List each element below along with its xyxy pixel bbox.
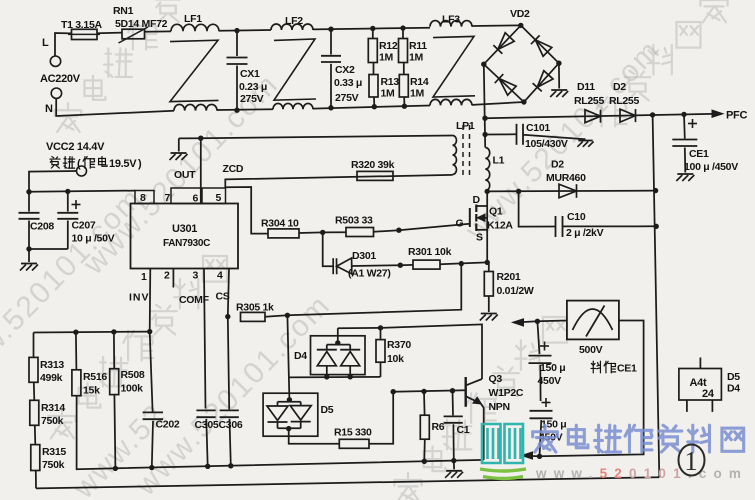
svg-text:N: N: [45, 103, 53, 115]
wire INV node: [34, 331, 150, 334]
diode D301 (A1 W27): [323, 232, 333, 266]
wire pin6 GND: [200, 138, 202, 203]
svg-text:D11: D11: [577, 81, 595, 93]
svg-text:R13: R13: [381, 76, 400, 88]
svg-text:1: 1: [141, 271, 147, 283]
svg-text:0.23 μ: 0.23 μ: [239, 81, 267, 93]
svg-text:MUR460: MUR460: [546, 172, 586, 184]
svg-text:PFC: PFC: [726, 110, 747, 122]
svg-text:INV: INV: [129, 292, 150, 304]
svg-text:C10: C10: [567, 211, 586, 223]
wire: [97, 32, 122, 35]
wire: [217, 108, 273, 111]
svg-text:Q3: Q3: [489, 373, 503, 385]
wire: [313, 106, 430, 109]
svg-text:R370: R370: [387, 339, 411, 351]
capacitor 150u 450V lower: [542, 398, 551, 407]
wire bottom rail: [36, 477, 659, 488]
wire R15 to Q3 base: [369, 390, 466, 444]
wire D4 node to Q3 collector: [381, 324, 483, 379]
svg-text:1M: 1M: [409, 52, 424, 64]
diode D5 pair: [263, 393, 318, 436]
wire N to bridge: [472, 102, 524, 105]
svg-text:C202: C202: [156, 419, 180, 431]
bridge rectifier VD2: [484, 25, 559, 102]
wire R14 to N line: [403, 97, 405, 106]
ground C208: [28, 249, 30, 262]
wire ground bus: [77, 396, 484, 470]
resistor R11 1M: [402, 28, 404, 38]
resistor R304 10: [268, 229, 299, 238]
svg-text:RL255: RL255: [609, 95, 639, 107]
wire gate: [399, 224, 470, 231]
svg-text:D2: D2: [613, 81, 626, 93]
wire: [299, 231, 323, 234]
wire R13 to N line: [373, 97, 375, 107]
svg-text:RL255: RL255: [574, 95, 604, 107]
svg-text:C101: C101: [526, 122, 550, 134]
svg-text:www.520101.com: www.520101.com: [535, 466, 748, 481]
svg-text:R508: R508: [121, 369, 145, 381]
svg-text:105/430V: 105/430V: [525, 138, 568, 150]
capacitor 150u 450V upper: [537, 321, 539, 354]
svg-text:19.5V: 19.5V: [109, 158, 137, 170]
resistor R14 1M: [403, 63, 405, 75]
svg-text:750k: 750k: [41, 415, 64, 427]
svg-text:U301: U301: [172, 223, 197, 235]
svg-text:C207: C207: [72, 220, 96, 232]
svg-text:OUT: OUT: [174, 169, 196, 181]
ground C101: [577, 141, 593, 147]
wire PFC line: [485, 114, 712, 118]
svg-text:R15 330: R15 330: [334, 427, 372, 439]
svg-text:D5: D5: [727, 371, 740, 383]
fuse T1 3.15A: [72, 29, 98, 39]
resistor R370 10k: [376, 340, 385, 363]
wire: [313, 28, 368, 31]
wire CS node: [265, 315, 287, 317]
node arrow bottom: [528, 455, 540, 457]
svg-text:1: 1: [684, 446, 698, 476]
resistor R15 330: [339, 439, 369, 448]
wire ZCD line: [225, 175, 452, 188]
svg-text:COMF: COMF: [179, 294, 210, 306]
wire CS to D4 D5: [287, 315, 289, 400]
wire DC rail vertical: [484, 64, 485, 147]
label shice daiji 19.5V: [50, 157, 60, 169]
svg-text:G: G: [456, 218, 464, 230]
svg-text:8: 8: [140, 192, 146, 204]
diode D2 RL255: [620, 109, 636, 122]
node arrow to PFC: [524, 320, 537, 323]
resistor R201 0.01/2W: [488, 262, 490, 271]
junction: [650, 112, 655, 117]
resistor R301 10k: [413, 260, 440, 269]
resistor R6: [423, 391, 426, 415]
svg-text:2 μ /2kV: 2 μ /2kV: [566, 227, 604, 239]
svg-text:275V: 275V: [240, 93, 264, 105]
resistor R320 39k: [357, 171, 393, 180]
svg-text:FAN7930C: FAN7930C: [163, 238, 210, 249]
svg-text:R503 33: R503 33: [335, 215, 373, 227]
svg-text:1M: 1M: [381, 88, 396, 100]
resistor R13 1M: [373, 63, 375, 75]
svg-text:150 μ: 150 μ: [540, 362, 565, 374]
resistor R508 100k: [113, 332, 115, 369]
capacitor C207 10u/50V: [72, 200, 81, 209]
wire LP1 top to GND line: [201, 136, 453, 139]
wire meter right loop: [540, 321, 644, 457]
svg-text:275V: 275V: [335, 92, 359, 104]
capacitor CE1 100u/450V: [683, 114, 686, 138]
wire right vertical rail: [653, 115, 660, 477]
node PFC output: [712, 110, 723, 117]
resistor R503 33: [346, 228, 374, 237]
svg-text:VD2: VD2: [510, 8, 530, 20]
junction: [537, 454, 542, 459]
svg-text:L1: L1: [493, 155, 505, 167]
svg-text:L: L: [42, 37, 49, 49]
svg-text:D2: D2: [551, 159, 564, 171]
capacitor C306: [228, 317, 229, 410]
wire VCC rail: [29, 191, 136, 192]
svg-text:5D14 MF72: 5D14 MF72: [115, 18, 168, 30]
svg-text:CE1: CE1: [617, 363, 637, 375]
wire bridge minus: [558, 63, 560, 88]
svg-text:CS: CS: [216, 291, 230, 303]
svg-text:CE1: CE1: [689, 148, 709, 160]
capacitor C305: [196, 409, 215, 411]
svg-text:R201: R201: [497, 271, 521, 283]
inductor L1: [485, 148, 489, 191]
ground R201: [480, 314, 498, 321]
svg-text:(A1 W27): (A1 W27): [348, 268, 391, 280]
svg-text:D4: D4: [294, 350, 307, 362]
svg-text:R12: R12: [379, 40, 398, 52]
svg-text:7: 7: [165, 192, 171, 204]
svg-text:0.33 μ: 0.33 μ: [334, 77, 362, 89]
svg-text:T1 3.15A: T1 3.15A: [61, 19, 103, 31]
wire: [368, 27, 430, 30]
svg-text:R320 39k: R320 39k: [351, 159, 395, 171]
wire VCC: [29, 171, 77, 192]
svg-text:499k: 499k: [40, 372, 63, 384]
module A4t: [679, 369, 722, 401]
wire D4 bottom line: [288, 376, 380, 379]
label tidai CE1: [591, 361, 600, 373]
svg-text:24: 24: [702, 388, 715, 400]
svg-text:100 μ /450V: 100 μ /450V: [684, 161, 738, 173]
svg-text:3: 3: [193, 270, 199, 282]
svg-text:ZCD: ZCD: [223, 163, 244, 175]
ground bridge: [550, 90, 568, 97]
svg-text:10 μ /50V: 10 μ /50V: [72, 233, 115, 245]
op-amp U301 FAN7930C: [131, 204, 239, 269]
wire N line: [56, 98, 174, 116]
svg-text:100k: 100k: [121, 383, 144, 395]
svg-text:CX2: CX2: [335, 64, 355, 76]
svg-text:R304 10: R304 10: [261, 218, 299, 230]
svg-text:LP1: LP1: [456, 120, 475, 132]
svg-text:R14: R14: [410, 76, 429, 88]
svg-text:K12A: K12A: [487, 220, 513, 232]
wire meter left: [537, 320, 567, 323]
ground C1: [453, 461, 455, 470]
junction: [398, 263, 403, 268]
svg-text:C1: C1: [457, 424, 470, 436]
svg-text:NPN: NPN: [489, 401, 510, 413]
svg-text:1M: 1M: [379, 52, 394, 64]
resistor R12 1M: [372, 29, 374, 39]
wire R315 to bottom rail: [35, 471, 37, 489]
wire CS to R301 node: [287, 264, 461, 316]
svg-text:750k: 750k: [42, 459, 65, 471]
junction: [225, 314, 230, 319]
svg-text:LF3: LF3: [442, 14, 460, 26]
meter 500V: [567, 301, 619, 340]
svg-text:15k: 15k: [83, 385, 100, 397]
svg-text:0.01/2W: 0.01/2W: [497, 285, 534, 297]
svg-text:R301 10k: R301 10k: [408, 246, 452, 258]
diode D2 MUR460: [487, 190, 655, 193]
capacitor C1: [452, 391, 455, 416]
svg-text:500V: 500V: [579, 344, 603, 356]
capacitor CX1 0.23u 275V: [236, 31, 238, 56]
svg-text:VCC2 14.4V: VCC2 14.4V: [46, 141, 105, 153]
diode D4 pair: [311, 336, 366, 375]
wire D5 bottom: [289, 429, 340, 444]
thermistor RN1 5D14 MF72: [122, 29, 145, 39]
capacitor CX2 0.33u 275V: [330, 29, 332, 54]
transistor Q1 K12A: [469, 208, 471, 227]
resistor R305 1k: [241, 312, 266, 321]
svg-text:C305: C305: [195, 419, 219, 431]
svg-text:4: 4: [217, 270, 223, 282]
wire: [145, 30, 172, 32]
line filter LF3: [430, 21, 472, 27]
resistor R315 750k: [34, 425, 37, 444]
svg-text:C208: C208: [30, 221, 54, 233]
svg-text:C306: C306: [219, 419, 243, 431]
wire L input: [55, 33, 72, 56]
svg-text:R516: R516: [83, 371, 107, 383]
svg-text:RN1: RN1: [113, 5, 134, 17]
svg-text:AC220V: AC220V: [40, 73, 81, 85]
svg-text:Q1: Q1: [489, 206, 503, 218]
capacitor C10 2u/2kV: [519, 191, 556, 226]
svg-text:R6: R6: [432, 421, 445, 433]
svg-text:R305 1k: R305 1k: [236, 302, 274, 314]
wire R508 to bus: [114, 395, 115, 469]
svg-text:R314: R314: [41, 402, 65, 414]
svg-text:10k: 10k: [387, 353, 404, 365]
capacitor C208: [28, 192, 30, 212]
resistor R516 15k: [75, 332, 78, 370]
svg-text:R11: R11: [409, 40, 427, 52]
line filter LF2: [271, 24, 313, 30]
wire: [219, 29, 271, 32]
svg-text:W1P2C: W1P2C: [489, 387, 524, 399]
svg-text:S: S: [476, 232, 483, 244]
svg-text:450V: 450V: [538, 375, 562, 387]
capacitor C101 105/430V: [485, 133, 516, 135]
svg-text:LF1: LF1: [184, 13, 202, 25]
wire: [323, 231, 346, 233]
wire: [488, 296, 490, 312]
line filter LF1: [171, 24, 219, 31]
svg-text:R313: R313: [40, 359, 64, 371]
svg-text:R315: R315: [42, 446, 66, 458]
wire ZCD to R304: [225, 187, 268, 234]
wire: [472, 24, 521, 27]
svg-text:D5: D5: [321, 404, 334, 416]
capacitor C202: [150, 332, 153, 412]
svg-text:2: 2: [164, 270, 170, 282]
resistor R313 499k: [33, 333, 35, 358]
svg-text:CX1: CX1: [240, 68, 260, 80]
svg-text:D301: D301: [352, 250, 376, 262]
svg-text:5: 5: [216, 192, 222, 204]
wire: [400, 264, 413, 266]
svg-text:D: D: [473, 194, 481, 206]
wire: [29, 248, 68, 250]
svg-text:LF2: LF2: [285, 15, 303, 27]
wire D4 top node: [338, 327, 381, 329]
transistor Q3 W1P2C NPN: [465, 377, 467, 407]
resistor R314 750k: [33, 382, 36, 400]
svg-text:D4: D4: [727, 383, 740, 395]
diode D11 RL255: [585, 110, 601, 123]
ground pin6: [170, 153, 188, 160]
svg-text:6: 6: [193, 193, 199, 205]
ground CE1: [676, 174, 694, 181]
svg-text:1M: 1M: [410, 88, 425, 100]
